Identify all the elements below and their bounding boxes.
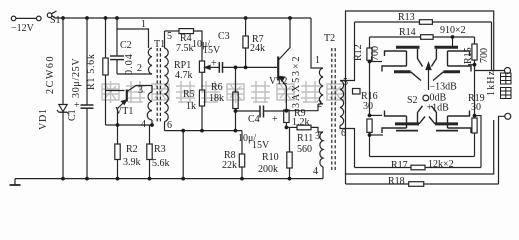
svg-text:700: 700 — [370, 46, 381, 61]
switch S2 wiper — [423, 63, 431, 101]
resistor R18 — [409, 182, 424, 187]
resistor R17 — [411, 165, 425, 170]
svg-text:VT1: VT1 — [115, 106, 133, 117]
svg-text:3: 3 — [138, 85, 143, 96]
wire T1 pin6 row — [165, 130, 243, 132]
svg-text:R6: R6 — [211, 82, 223, 93]
wire R14 row to upper-right contact — [452, 37, 454, 47]
svg-text:6: 6 — [341, 128, 346, 139]
svg-text:C1: C1 — [67, 109, 78, 121]
svg-text:R18: R18 — [388, 176, 405, 187]
svg-text:24k: 24k — [250, 43, 265, 54]
capacitor C2 0.04 — [110, 18, 124, 74]
svg-text:15V: 15V — [252, 140, 270, 151]
resistor R15 700 — [472, 37, 477, 116]
capacitor C3 10u/15V — [213, 62, 277, 73]
wire bottom rail — [15, 178, 323, 180]
svg-text:4: 4 — [141, 119, 146, 130]
svg-text:3AX53×2: 3AX53×2 — [291, 55, 302, 108]
wire pin6 row to ground — [182, 131, 184, 179]
svg-text:30: 30 — [363, 101, 373, 112]
transformer T2 — [318, 22, 355, 179]
svg-text:18k: 18k — [209, 93, 224, 104]
svg-text:R13: R13 — [398, 12, 415, 23]
svg-text:S1: S1 — [50, 15, 61, 26]
wire top rail corner down to T2 pin1 — [311, 18, 323, 68]
wire R13 row — [355, 21, 492, 23]
svg-text:R5: R5 — [183, 89, 195, 100]
small rect near R16 — [353, 89, 361, 95]
svg-text:R15: R15 — [463, 47, 474, 64]
watermark 杭州将睿科技有限公司 (approximated) — [102, 81, 344, 103]
svg-text:1: 1 — [315, 55, 320, 66]
svg-text:30: 30 — [471, 102, 481, 113]
svg-text:12k×2: 12k×2 — [428, 159, 454, 170]
svg-text:4.7k: 4.7k — [175, 70, 193, 81]
svg-text:22k: 22k — [222, 160, 237, 171]
wire R9 bottom row — [286, 126, 297, 128]
wire bottom output — [499, 116, 505, 184]
resistor R11 560 — [297, 125, 318, 132]
resistor R3 5.6k — [147, 125, 152, 179]
svg-text:C3: C3 — [218, 31, 230, 42]
resistor R12 700 — [367, 37, 372, 115]
svg-text:4: 4 — [313, 166, 318, 177]
svg-text:5: 5 — [343, 77, 348, 88]
zener diode VD1 2CW60 — [57, 18, 69, 179]
svg-text:VT2: VT2 — [269, 76, 287, 87]
svg-text:C4: C4 — [248, 114, 260, 125]
wire VT1 emitter down through R2 — [117, 125, 119, 144]
wire R12 to upper-left contact — [370, 61, 383, 63]
svg-text:C2: C2 — [120, 40, 132, 51]
switch S1 — [47, 11, 56, 18]
wire to lower-left contact — [370, 114, 383, 116]
resistor R8 22k — [239, 131, 244, 179]
输出 output label (drawn) — [501, 73, 512, 99]
svg-text:700: 700 — [479, 48, 490, 63]
resistor R7 24k — [243, 18, 248, 67]
svg-text:1kHz: 1kHz — [486, 70, 497, 96]
switch contact upper-left — [382, 47, 423, 80]
wire top output — [475, 70, 505, 72]
wire VT1 base — [106, 90, 125, 92]
svg-text:S2: S2 — [407, 95, 418, 106]
output terminal top — [505, 68, 511, 74]
svg-text:R10: R10 — [262, 152, 279, 163]
svg-text:200k: 200k — [258, 164, 278, 175]
svg-text:7.5k: 7.5k — [176, 43, 194, 54]
svg-text:2: 2 — [317, 99, 322, 110]
svg-text:R1 5.6k: R1 5.6k — [86, 53, 97, 90]
svg-text:3: 3 — [315, 131, 320, 142]
wire R15 to upper-right contact — [468, 64, 475, 66]
svg-text:3.9k: 3.9k — [123, 157, 141, 168]
resistor R9 1.2k — [284, 110, 289, 127]
svg-text:R3: R3 — [154, 144, 166, 155]
resistor R2 3.9k — [115, 144, 120, 179]
svg-text:VD1: VD1 — [38, 108, 49, 130]
wire base column to pin4 row — [106, 124, 153, 126]
wire T1 pin2 — [117, 73, 152, 75]
svg-text:1.2k: 1.2k — [292, 117, 310, 128]
svg-text:15V: 15V — [203, 45, 221, 56]
capacitor C4 10u/15V — [236, 106, 287, 118]
wire T2 pin2 to emitter — [286, 104, 318, 111]
svg-text:+1dB: +1dB — [427, 103, 450, 114]
svg-text:R17: R17 — [391, 160, 408, 171]
svg-text:+: + — [272, 114, 278, 125]
svg-text:560: 560 — [297, 144, 312, 155]
svg-text:1k: 1k — [186, 101, 196, 112]
resistor R1 5.6k — [103, 18, 108, 125]
svg-text:30μ/25V: 30μ/25V — [71, 58, 82, 98]
svg-text:1: 1 — [141, 19, 146, 30]
svg-text:2CW60: 2CW60 — [45, 55, 56, 94]
ground — [10, 179, 21, 185]
potentiometer RP1 4.7k — [199, 61, 213, 90]
svg-text:5: 5 — [167, 31, 172, 42]
transistor VT1 — [118, 86, 153, 126]
capacitor C1 30u/25V — [81, 18, 94, 179]
resistor R14 — [421, 35, 434, 40]
wire inner bottom — [370, 156, 475, 158]
wire R16 bottom to lower-left contact — [370, 134, 384, 136]
svg-text:+: + — [211, 58, 217, 69]
wire R19 node to R17 — [475, 116, 482, 168]
svg-text:R11: R11 — [297, 133, 313, 144]
right section outer box — [346, 11, 494, 174]
wire R17 row — [355, 167, 482, 169]
resistor R16 30 — [367, 119, 372, 157]
svg-text:R14: R14 — [399, 27, 416, 38]
input terminal circles -12V — [11, 16, 41, 21]
transistor VT2 — [278, 18, 290, 111]
svg-text:910×2: 910×2 — [440, 25, 466, 36]
resistor R4 7.5k — [165, 29, 203, 61]
resistor R19 30 — [472, 118, 477, 157]
switch contact lower-left — [382, 106, 425, 133]
resistor R5 1k — [199, 90, 204, 131]
svg-text:R2: R2 — [126, 144, 138, 155]
output terminal bottom — [505, 113, 511, 119]
svg-text:−13dB: −13dB — [430, 82, 458, 93]
svg-text:0.04: 0.04 — [124, 53, 135, 75]
resistor R13 — [419, 20, 432, 25]
transformer T1 — [147, 31, 168, 131]
svg-text:−12V: −12V — [11, 23, 35, 34]
switch contact upper-right — [431, 47, 471, 80]
wire T1 pin1 — [117, 29, 149, 48]
wire top rail — [55, 17, 311, 19]
svg-text:2: 2 — [137, 63, 142, 74]
svg-text:+: + — [74, 100, 80, 111]
wire R14 row — [370, 36, 475, 38]
svg-text:T2: T2 — [324, 33, 335, 44]
svg-text:6: 6 — [167, 120, 172, 131]
svg-text:T1: T1 — [154, 39, 165, 50]
svg-text:R12: R12 — [353, 44, 364, 61]
switch contact lower-right — [429, 106, 471, 133]
svg-text:5.6k: 5.6k — [152, 158, 170, 169]
resistor R10 200k — [287, 127, 292, 178]
wire R18 row — [345, 174, 347, 184]
resistor R6 18k — [233, 67, 238, 130]
wire R13 row end down — [491, 22, 493, 71]
